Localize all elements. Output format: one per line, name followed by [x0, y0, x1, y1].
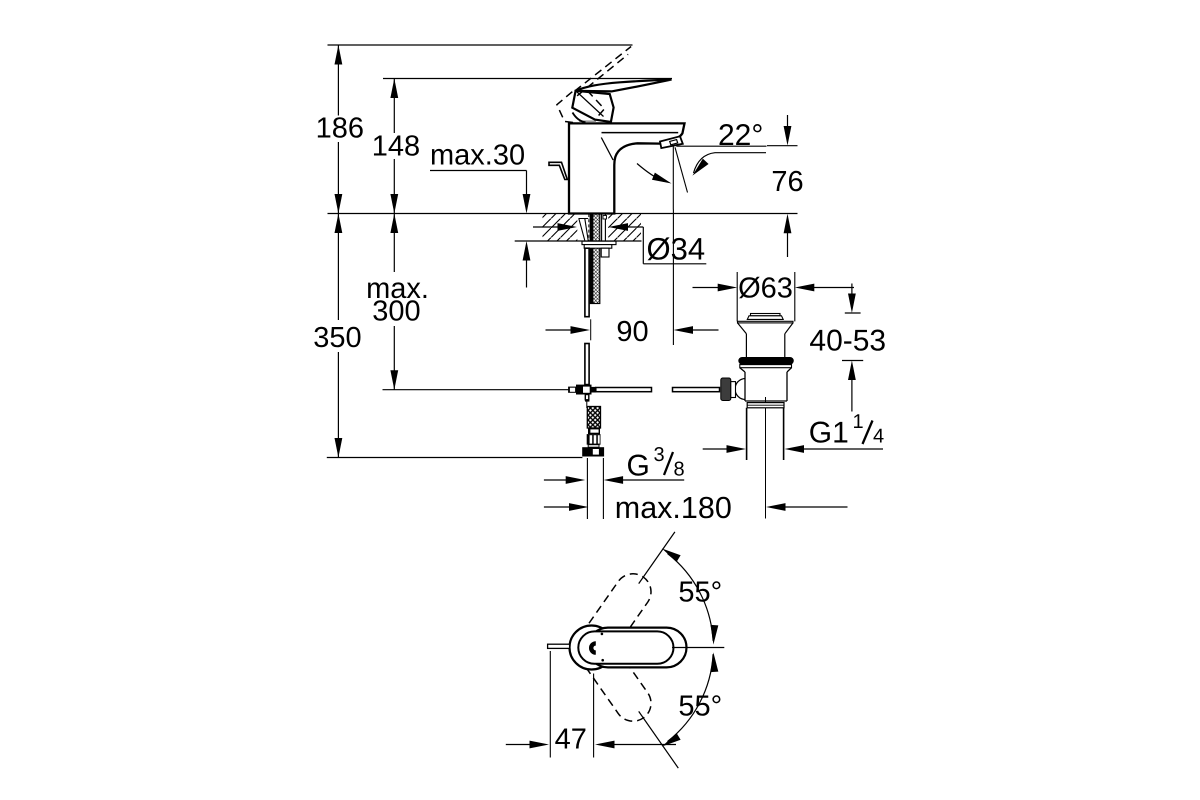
hose nut G3/8 — [582, 447, 604, 456]
tailpipe collar — [747, 403, 784, 408]
logo mark — [591, 643, 596, 652]
svg-text:55°: 55° — [678, 576, 722, 608]
washer under o-ring — [740, 365, 792, 368]
handle outer (top view) — [588, 628, 687, 668]
cartridge dome — [573, 113, 586, 123]
deck / counter top line — [328, 213, 798, 215]
dashed handle position upper (55) — [571, 567, 658, 670]
clevis screw — [568, 387, 576, 393]
shine line — [601, 138, 613, 161]
svg-text:G: G — [627, 450, 650, 483]
pop-up lever knob (side view) — [549, 162, 567, 179]
rod below clevis — [585, 395, 589, 400]
pop-up rod (top view) — [548, 644, 570, 648]
pop-up rod lower — [585, 344, 589, 385]
braided hose lower (cross hatch) — [587, 407, 600, 429]
dimension 186 — [337, 45, 339, 214]
pop-up rod upper — [585, 248, 589, 317]
svg-text:90: 90 — [616, 316, 648, 348]
svg-text:40-53: 40-53 — [809, 325, 886, 358]
hose step — [588, 445, 599, 448]
handle knuckle — [572, 91, 613, 122]
cap inner line — [602, 132, 679, 134]
dimension 350 — [337, 214, 339, 458]
radial line lower 55 — [639, 711, 679, 768]
dimension Ø34 — [533, 226, 558, 228]
deck bottom line — [515, 240, 642, 242]
drain cone — [738, 323, 794, 334]
deck hatch right — [608, 214, 641, 242]
svg-text:186: 186 — [316, 113, 364, 145]
radial line upper 55 — [639, 532, 675, 584]
clevis block — [576, 385, 592, 395]
shading under knuckle — [579, 120, 596, 122]
svg-text:22°: 22° — [718, 119, 763, 152]
handle dots — [601, 633, 604, 636]
bottom reference line (350, hose end) — [327, 457, 583, 459]
svg-text:300: 300 — [372, 296, 420, 328]
reference line at linkage (max.300) — [383, 389, 571, 391]
svg-text:55°: 55° — [678, 691, 722, 723]
rod break hairline — [590, 319, 592, 340]
threaded shank (cross hatched) — [590, 214, 600, 304]
linkage rod left segment — [596, 388, 652, 392]
svg-text:47: 47 — [555, 724, 587, 756]
dimension max.300 — [393, 214, 395, 390]
knurled wheel — [721, 378, 731, 401]
dimension 47 — [550, 651, 593, 758]
drain neck — [746, 334, 784, 359]
dimension G 3/8 — [544, 479, 567, 481]
angle arc upper — [668, 554, 714, 641]
body circle (top view) — [570, 626, 614, 670]
hose crimp connector (ribbed) — [587, 434, 601, 445]
svg-text:76: 76 — [771, 166, 803, 198]
svg-text:Ø63: Ø63 — [738, 273, 793, 305]
dimension max.180 — [544, 506, 571, 508]
dimension Ø63 — [693, 287, 720, 289]
ball joint arc — [735, 379, 746, 400]
hole right tube — [602, 214, 606, 241]
svg-text:8: 8 — [674, 459, 685, 481]
svg-text:4: 4 — [873, 426, 884, 448]
dashed handle position lower (55) — [571, 626, 658, 729]
reference line at lever tip (148) — [383, 78, 672, 80]
svg-text:max.30: max.30 — [430, 140, 525, 172]
svg-text:Ø34: Ø34 — [647, 232, 706, 267]
hole wedge detail — [579, 219, 589, 241]
svg-text:G1: G1 — [809, 417, 849, 450]
angle arc lower — [668, 654, 714, 741]
drain rim plate (Ø63) — [738, 321, 794, 323]
wheel collar — [731, 382, 736, 398]
raised handle (dashed) — [557, 47, 631, 123]
extension lines below hose nut — [587, 458, 603, 519]
dimension 148 — [393, 79, 395, 214]
knuckle crease — [577, 92, 604, 117]
radial line horizontal — [672, 647, 724, 649]
dimension 90 — [546, 329, 572, 331]
faucet body side view — [569, 123, 685, 213]
drain body — [740, 368, 792, 401]
arc arrow left of stream — [637, 164, 664, 182]
drain centerline — [765, 397, 767, 519]
drain knob cap — [751, 314, 781, 316]
water stream slanted line (22 deg) — [675, 147, 688, 192]
clevis right nub — [592, 387, 596, 393]
reference line top (tip of raised handle) — [328, 44, 633, 46]
svg-text:1: 1 — [853, 411, 864, 433]
handle top face (top view) — [578, 631, 673, 663]
svg-text:3: 3 — [654, 444, 665, 466]
mounting nut — [584, 245, 612, 249]
dimension 76 — [767, 115, 798, 257]
dimension 40-53 — [842, 284, 863, 412]
svg-text:148: 148 — [372, 131, 420, 163]
hose crimp collar — [588, 428, 600, 434]
linkage rod right segment — [673, 388, 720, 392]
hose stub — [601, 248, 609, 257]
svg-text:max.180: max.180 — [615, 491, 732, 525]
extension line from spout center — [672, 210, 674, 346]
mounting washer — [582, 241, 616, 244]
svg-text:350: 350 — [313, 322, 361, 354]
water stream vertical line — [672, 147, 674, 210]
o-ring seal — [738, 357, 794, 365]
lever (solid) — [576, 80, 672, 92]
aerator — [660, 136, 683, 148]
tailpipe — [747, 408, 784, 460]
deck hatch left — [543, 214, 578, 242]
